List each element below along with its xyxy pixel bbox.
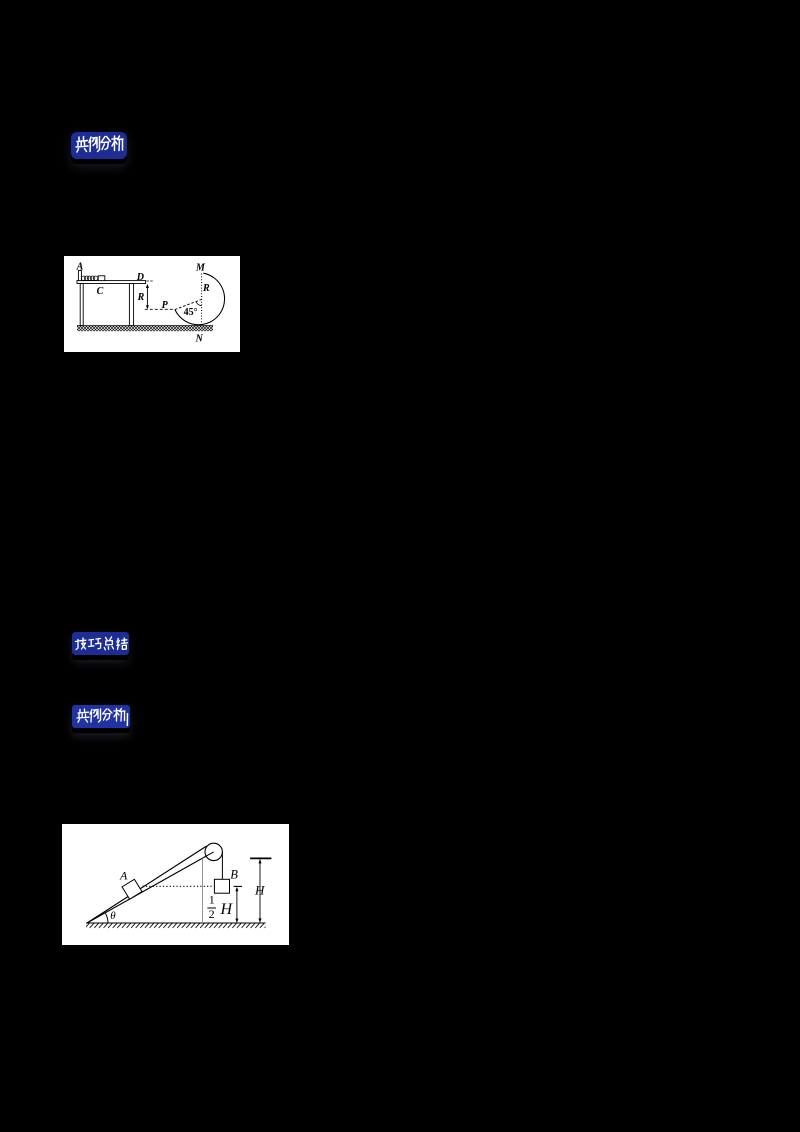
svg-text:R: R xyxy=(202,283,210,294)
svg-text:D: D xyxy=(136,272,144,283)
svg-text:N: N xyxy=(195,333,204,344)
svg-text:2: 2 xyxy=(209,907,215,921)
svg-text:1: 1 xyxy=(209,893,215,907)
svg-text:P: P xyxy=(162,300,169,311)
svg-text:A: A xyxy=(119,869,128,883)
svg-text:45°: 45° xyxy=(184,307,198,318)
svg-text:M: M xyxy=(195,263,206,274)
svg-text:R: R xyxy=(137,292,145,303)
svg-text:H: H xyxy=(254,883,265,898)
svg-text:θ: θ xyxy=(110,910,116,922)
svg-text:H: H xyxy=(220,901,234,918)
svg-text:C: C xyxy=(97,286,104,297)
svg-text:B: B xyxy=(230,868,238,882)
svg-text:A: A xyxy=(76,262,84,273)
